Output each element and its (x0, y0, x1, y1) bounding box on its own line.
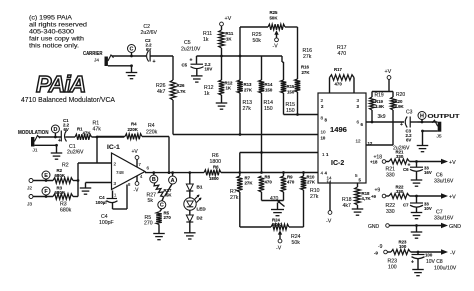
wire IC-1 pin 3 (86, 183, 112, 189)
ground at C5 (191, 76, 203, 82)
ground at J4 (126, 73, 138, 79)
node C (wiper of R27) (158, 201, 166, 209)
capacitor C2 (141, 24, 174, 65)
svg-text:C3: C3 (406, 110, 413, 116)
svg-text:220K: 220K (128, 127, 139, 132)
svg-text:16V: 16V (424, 170, 432, 175)
svg-text:220k: 220k (146, 130, 158, 136)
svg-text:4: 4 (321, 171, 324, 176)
wire D2 to ground (189, 222, 191, 233)
wire carrier rail to IC-2 pin 10 (173, 134, 318, 136)
svg-text:150: 150 (264, 106, 273, 112)
svg-text:10: 10 (321, 136, 326, 141)
potentiometer R24 output null (240, 190, 304, 252)
svg-text:E: E (44, 173, 48, 179)
svg-text:R6: R6 (213, 165, 219, 170)
svg-text:10V: 10V (205, 67, 213, 72)
svg-text:+9: +9 (371, 194, 377, 199)
label MODULATION (18, 130, 49, 136)
-9 terminal (374, 244, 391, 256)
svg-text:150: 150 (286, 108, 295, 114)
wire R4 right to output (142, 137, 170, 175)
svg-text:50K: 50K (273, 222, 282, 227)
svg-text:-V: -V (450, 251, 456, 257)
jack J5 (432, 120, 442, 139)
svg-text:5k: 5k (148, 198, 154, 204)
svg-text:R26: R26 (177, 83, 186, 88)
svg-text:6V: 6V (146, 47, 151, 52)
IC-2 pin labels left (321, 98, 333, 185)
svg-text:GND: GND (368, 224, 380, 230)
wire node to IC-1 pin 2 (78, 137, 112, 163)
node F (42, 187, 50, 198)
svg-text:100: 100 (399, 244, 407, 249)
svg-text:6: 6 (357, 120, 360, 125)
svg-text:10V C8: 10V C8 (426, 259, 443, 265)
resistor R14 (259, 56, 273, 112)
+V rail arrow (441, 159, 456, 166)
capacitor C6 (403, 162, 454, 185)
potentiometer R25 (240, 10, 298, 50)
svg-text:(c) 1995 PAiA: (c) 1995 PAiA (29, 15, 73, 22)
svg-text:47K: 47K (83, 131, 92, 136)
resistor R26 (156, 80, 187, 100)
wire R6 to IC-2 pin 4 (221, 171, 318, 174)
svg-text:4k7: 4k7 (157, 89, 165, 95)
svg-text:OUTPUT: OUTPUT (428, 114, 461, 120)
+9 terminal (371, 188, 389, 200)
svg-text:33u/16V: 33u/16V (434, 216, 454, 222)
LED indicator (184, 191, 207, 212)
svg-text:R11: R11 (226, 31, 234, 36)
resistor R23 (388, 240, 411, 271)
trimpot 470 carrier null (262, 192, 285, 210)
diode B1 (186, 184, 203, 191)
svg-text:470: 470 (265, 180, 273, 185)
capacitor C5 (181, 40, 212, 76)
svg-text:680k: 680k (60, 208, 72, 214)
ground at J1 (51, 153, 63, 159)
svg-text:270: 270 (144, 221, 153, 227)
GND rail arrow (441, 223, 461, 230)
resistor R9 (281, 173, 295, 193)
svg-text:14: 14 (327, 180, 332, 185)
wire R25 left leg (239, 27, 241, 80)
+18 terminal (370, 155, 389, 165)
wire R22 to +V arrow (410, 195, 442, 198)
+V rail arrow 2 (441, 193, 456, 200)
svg-text:10: 10 (321, 130, 327, 135)
ground at C6 (411, 180, 423, 186)
svg-text:C6: C6 (403, 167, 409, 172)
ground at D2 (184, 233, 196, 239)
svg-text:27k: 27k (303, 54, 312, 60)
svg-text:470: 470 (287, 180, 295, 185)
op-amp IC-1 (107, 144, 150, 190)
svg-text:27k: 27k (230, 195, 239, 201)
jack J3 (27, 195, 53, 208)
resistor R12 (204, 56, 233, 97)
svg-text:27k: 27k (310, 194, 319, 200)
svg-text:-9: -9 (378, 244, 383, 250)
svg-text:33u/16V: 33u/16V (434, 179, 454, 185)
jack J2 (27, 179, 53, 192)
svg-text:1k: 1k (204, 91, 210, 97)
svg-text:R2: R2 (62, 163, 69, 169)
svg-text:PAiA: PAiA (36, 71, 85, 97)
resistor R2 (53, 163, 73, 184)
svg-text:LED: LED (197, 207, 207, 212)
svg-text:+: + (58, 138, 61, 144)
svg-text:MODULATION: MODULATION (18, 130, 49, 136)
svg-text:3: 3 (114, 181, 117, 186)
svg-text:A: A (171, 178, 175, 184)
-V rail arrow (441, 249, 456, 256)
svg-text:330: 330 (396, 154, 404, 159)
svg-text:J4: J4 (94, 58, 99, 64)
svg-text:-V: -V (276, 246, 282, 252)
wire R2/R3 to IC-1 pin 2 (73, 163, 79, 197)
svg-text:C: C (130, 46, 134, 52)
+V terminal at R19/R20 (385, 69, 392, 92)
svg-text:470: 470 (335, 82, 343, 87)
svg-text:+V: +V (225, 16, 232, 22)
wire IC-2 pin 1 line (240, 151, 318, 172)
svg-text:R15: R15 (287, 84, 296, 89)
svg-text:B: B (152, 177, 156, 183)
capacitor C1 (58, 118, 84, 156)
wire R13 to carrier rail (239, 93, 242, 136)
svg-text:-V: -V (326, 219, 332, 225)
svg-text:B1: B1 (197, 185, 203, 190)
+V terminal at R11 (220, 16, 232, 30)
svg-text:100: 100 (425, 253, 433, 258)
diode D2 (186, 210, 203, 222)
svg-text:3: 3 (357, 98, 360, 103)
ground at C7 (411, 213, 423, 219)
svg-text:J2: J2 (27, 186, 32, 192)
svg-text:C7: C7 (403, 203, 409, 208)
ground at 470 trimpot (271, 210, 284, 216)
svg-text:R4: R4 (148, 123, 155, 129)
wire IC-2 pin 14 to -V (326, 183, 332, 225)
wire +V bridge (372, 91, 393, 93)
svg-text:R19: R19 (375, 93, 384, 99)
resistor R4 (125, 122, 158, 140)
svg-text:27k: 27k (243, 106, 252, 112)
svg-text:-V: -V (273, 44, 279, 50)
wire C2 to R26 (172, 56, 174, 80)
svg-text:+: + (411, 260, 414, 266)
resistor R18 (342, 183, 372, 209)
wire J1 tip (39, 136, 62, 139)
svg-text:150: 150 (287, 90, 295, 95)
svg-text:5K: 5K (166, 193, 172, 198)
resistor R6 (204, 153, 221, 181)
svg-text:6V: 6V (406, 138, 411, 143)
wire R23 to -V arrow (411, 251, 442, 254)
ground at J5 (417, 146, 429, 152)
jack J1 (31, 136, 40, 154)
wire R12 to ground (221, 95, 223, 103)
resistor R7 (230, 173, 253, 202)
svg-text:+9: +9 (375, 188, 381, 194)
IC U2 1496 box (318, 93, 366, 183)
resistor R16 (295, 48, 312, 92)
svg-text:50K: 50K (270, 16, 279, 21)
PAiA logo (36, 71, 85, 97)
svg-text:this notice only.: this notice only. (29, 43, 79, 50)
svg-text:100µf: 100µf (96, 200, 108, 205)
svg-text:-V: -V (134, 188, 140, 194)
svg-text:R20: R20 (396, 92, 405, 98)
wire R11 to bias line (221, 48, 223, 56)
resistor R13 (237, 80, 253, 112)
svg-text:R14: R14 (265, 82, 274, 87)
svg-text:H: H (420, 113, 424, 119)
svg-text:+V: +V (449, 195, 456, 201)
resistor R15 (281, 56, 295, 114)
svg-text:150: 150 (265, 88, 273, 93)
wire J5 sleeve to ground (421, 130, 438, 146)
svg-text:470: 470 (270, 196, 279, 202)
svg-text:3.9K: 3.9K (395, 104, 405, 109)
wire R19 to out line (371, 110, 374, 123)
svg-text:6: 6 (147, 166, 150, 171)
svg-text:2u2/10V: 2u2/10V (181, 47, 201, 53)
wire R20 to pin 12 (366, 110, 393, 145)
label OUTPUT (428, 114, 461, 120)
svg-text:27K: 27K (302, 70, 311, 75)
svg-text:100pF: 100pF (99, 220, 114, 226)
label CARRIER (83, 51, 103, 57)
IC-2 pin labels right (355, 98, 373, 183)
ground at C8 (412, 270, 424, 276)
svg-text:1800: 1800 (209, 176, 219, 181)
capacitor C4 (96, 182, 132, 226)
ground at R12 (216, 103, 228, 109)
svg-text:+V: +V (385, 69, 392, 75)
svg-text:1k: 1k (203, 37, 209, 43)
wire R15 to IC-2 pin 8 (284, 93, 319, 116)
node E (42, 171, 50, 182)
svg-text:J3: J3 (27, 202, 32, 208)
node C (carrier panel point) (128, 45, 136, 58)
IC-1 +V terminal (132, 149, 142, 167)
wire C to R5 (160, 209, 162, 212)
svg-text:330: 330 (386, 173, 395, 179)
resistor R20 (391, 92, 406, 111)
capacitor C3 (393, 110, 418, 152)
svg-text:IC-1: IC-1 (107, 144, 120, 151)
wire R18 to ground (357, 205, 359, 209)
svg-text:R13: R13 (244, 82, 253, 87)
resistor R19 (370, 92, 386, 121)
svg-text:+V: +V (132, 149, 139, 155)
svg-text:+: + (400, 122, 403, 128)
svg-text:4.7K: 4.7K (177, 89, 187, 94)
svg-text:R4: R4 (131, 122, 137, 127)
svg-text:3.9K: 3.9K (375, 104, 385, 109)
wire R1 to node (92, 136, 125, 139)
svg-text:C5: C5 (182, 63, 188, 68)
IC-1 -V terminal (134, 174, 144, 194)
svg-text:+V: +V (449, 160, 456, 166)
ground at R18 (352, 209, 364, 215)
svg-text:IC-2: IC-2 (331, 160, 344, 167)
wire C3 to J5 (418, 121, 438, 124)
wire IC-2 pin 6 output (366, 121, 404, 123)
title 4710 Balanced Modulator/VCA (21, 95, 115, 104)
wire J4 tip to C2 (112, 55, 146, 57)
svg-text:748: 748 (116, 170, 124, 175)
svg-text:3k9: 3k9 (378, 114, 386, 120)
resistor R17 (330, 45, 355, 93)
svg-text:100: 100 (388, 265, 397, 271)
potentiometer R27 (147, 183, 173, 204)
svg-text:R25: R25 (270, 10, 279, 15)
svg-text:680K: 680K (55, 190, 66, 195)
resistor R5 (144, 211, 171, 227)
wire R16 to pin 8 line (297, 92, 299, 115)
svg-text:330: 330 (386, 209, 395, 215)
svg-text:+: + (190, 58, 193, 64)
svg-text:330: 330 (396, 189, 404, 194)
svg-text:R17: R17 (334, 67, 343, 72)
svg-text:+: + (153, 59, 156, 65)
wire to B1 (188, 171, 191, 184)
copyright notice text (29, 15, 88, 50)
wire R21 to +V arrow (410, 160, 442, 163)
ground at R5 (153, 234, 165, 240)
resistor R22 (386, 185, 410, 216)
svg-text:4710 Balanced Modulator/VCA: 4710 Balanced Modulator/VCA (21, 95, 115, 104)
svg-text:R16: R16 (301, 65, 310, 70)
svg-text:1: 1 (322, 152, 325, 157)
svg-text:CARRIER: CARRIER (83, 51, 103, 57)
node D (modulation panel point) (51, 125, 59, 137)
svg-text:8: 8 (321, 116, 324, 121)
capacitor C7 (403, 196, 454, 222)
wire R25 right leg (297, 27, 299, 79)
resistor R3 (53, 186, 73, 214)
svg-text:470: 470 (338, 51, 347, 57)
resistor R11 (203, 30, 234, 48)
wire R14 leg down (261, 93, 263, 173)
svg-text:680K: 680K (55, 173, 66, 178)
wire R5 to ground (158, 224, 160, 233)
resistor R10 (301, 173, 320, 201)
svg-text:2: 2 (321, 98, 324, 103)
node B (150, 171, 158, 183)
wire IC-1 output (145, 172, 204, 174)
svg-text:27K: 27K (244, 88, 253, 93)
svg-text:D2: D2 (197, 216, 203, 221)
svg-text:50k: 50k (253, 38, 262, 44)
bias line (197, 55, 283, 58)
svg-text:D: D (53, 127, 57, 133)
svg-text:-9: -9 (374, 251, 378, 256)
svg-text:405-340-6300: 405-340-6300 (29, 29, 74, 36)
svg-text:6V: 6V (64, 127, 69, 132)
jack J4 (94, 55, 114, 66)
ground at IC-1 pin 3 (80, 188, 92, 194)
wire J4 sleeve (108, 64, 133, 72)
svg-text:2u2/6V: 2u2/6V (67, 150, 84, 156)
svg-text:1K: 1K (226, 37, 232, 42)
svg-text:27K: 27K (245, 181, 254, 186)
svg-text:all rights reserved: all rights reserved (29, 22, 88, 29)
svg-text:100u/10V: 100u/10V (434, 266, 457, 272)
svg-text:12: 12 (356, 139, 362, 144)
resistor R8 (259, 175, 273, 193)
svg-text:1496: 1496 (330, 125, 347, 134)
svg-text:2u2/6V: 2u2/6V (141, 30, 158, 36)
svg-text:J5: J5 (437, 134, 442, 140)
ground tap on GND line (411, 224, 423, 238)
svg-text:4k7: 4k7 (343, 203, 351, 209)
svg-text:C: C (160, 203, 164, 209)
svg-text:C5: C5 (184, 40, 191, 46)
svg-text:J1: J1 (33, 148, 38, 154)
node A (169, 171, 177, 184)
svg-text:50k: 50k (292, 240, 301, 246)
svg-text:47k: 47k (93, 127, 102, 133)
svg-text:GND: GND (449, 224, 461, 230)
wire R26 to carrier rail (172, 100, 174, 135)
resistor R21 (386, 150, 410, 179)
wire R4 left to pin2 node (97, 136, 125, 138)
node H (output panel point) (418, 112, 426, 123)
resistor R1 (75, 121, 101, 140)
svg-text:10V: 10V (424, 206, 432, 211)
svg-text:2: 2 (114, 162, 117, 167)
svg-text:+18: +18 (370, 160, 378, 165)
svg-text:270: 270 (164, 215, 172, 220)
wire J1 sleeve (34, 144, 57, 153)
svg-text:27K: 27K (307, 180, 316, 185)
GND terminal (368, 224, 441, 230)
svg-text:fair use copy with: fair use copy with (29, 36, 84, 43)
svg-text:1K: 1K (226, 86, 232, 91)
capacitor C8 (411, 252, 457, 272)
